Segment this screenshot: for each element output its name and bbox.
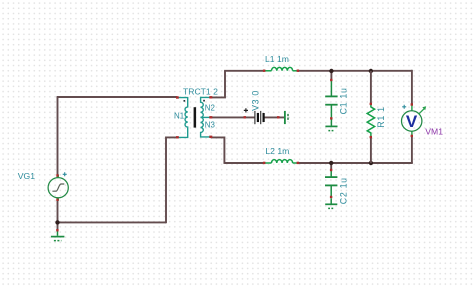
label TRCT1 2: [183, 86, 218, 96]
pin L1 left: [263, 70, 266, 72]
ground G1 below VG1: [51, 232, 65, 241]
inductor L2: [264, 160, 298, 163]
junction VG1-ground node: [55, 220, 59, 224]
pin L1 right: [297, 70, 300, 72]
transformer TRCT1 primary winding N1: [178, 98, 188, 138]
transformer phase dot right: [203, 100, 205, 102]
pin VG1 bottom: [56, 199, 58, 201]
voltage generator VG1: [48, 175, 68, 201]
pin ground G1: [56, 229, 58, 231]
label VM1: [425, 127, 443, 137]
svg-text:V: V: [406, 112, 418, 131]
pin TRCT1 N2 top: [209, 96, 212, 98]
svg-text:R1 1: R1 1: [376, 106, 386, 127]
pin VM1 bottom: [411, 135, 413, 137]
svg-text:N1: N1: [174, 112, 184, 121]
battery V3: [255, 111, 264, 124]
junction node top rail / R1: [369, 69, 373, 73]
wire VM1 bottom pin to bottom rail: [411, 136, 413, 163]
pin R1 bottom: [370, 136, 372, 138]
wire VG1 top to left corner: [57, 97, 59, 178]
wire bottom rail right of L2: [298, 162, 413, 164]
label C1 1u (rotated): [339, 87, 349, 114]
junction node bottom rail / R1: [369, 161, 373, 165]
ground at battery V3 (rotated right): [285, 111, 288, 124]
wire transformer N3 bottom pin to bottom rail: [211, 137, 225, 164]
svg-text:L2 1m: L2 1m: [265, 146, 289, 156]
wire VG1 ground stub: [57, 222, 59, 231]
label winding N2: [205, 104, 215, 113]
svg-text:V3 0: V3 0: [251, 90, 261, 111]
wire right riser to VM1 top pin: [411, 70, 413, 105]
ground below C1: [325, 120, 337, 131]
svg-text:N2: N2: [205, 104, 215, 113]
transformer TRCT1 core: [194, 107, 197, 127]
wire top rail right of L1: [298, 70, 412, 72]
wire VG1 bottom to junction: [57, 198, 59, 223]
pin C1 bottom: [330, 117, 332, 119]
inductor L1: [264, 67, 298, 70]
VM1 plus polarity mark: [402, 105, 406, 109]
VG1 plus polarity mark: [63, 172, 67, 176]
label C2 1u (rotated): [339, 177, 349, 204]
label VG1: [18, 171, 35, 181]
label V3 0 (rotated): [251, 90, 261, 111]
transformer TRCT1 secondary windings N2 N3 with center tap: [201, 97, 211, 136]
wire left riser to transformer N1 bottom: [166, 137, 178, 223]
wire battery V3 to ground: [264, 116, 285, 118]
capacitor C2: [325, 170, 337, 197]
voltmeter VM1: [402, 105, 422, 136]
pin R1 top: [370, 103, 372, 105]
wire C1 junction stub: [330, 71, 332, 80]
svg-text:N3: N3: [205, 121, 216, 130]
pin C2 bottom: [330, 196, 332, 198]
wire transformer N2 top pin to top rail: [211, 71, 225, 98]
label R1 1 (rotated): [376, 106, 386, 127]
svg-text:VG1: VG1: [18, 171, 35, 181]
svg-text:TRCT1 2: TRCT1 2: [183, 86, 218, 96]
ground below C2: [325, 198, 337, 208]
transformer phase dot left: [184, 100, 186, 102]
junction node bottom rail / C2: [329, 161, 333, 165]
pin TRCT1 N1 top: [176, 96, 179, 98]
wire bottom-left horizontal: [58, 221, 167, 223]
junction node top rail / C1: [329, 69, 333, 73]
pin VM1 top: [411, 103, 413, 105]
battery V3 plus polarity mark: [244, 108, 248, 112]
svg-text:C1 1u: C1 1u: [339, 87, 349, 114]
pin VG1 top: [56, 174, 58, 176]
pin L2 right: [297, 162, 300, 164]
wire R1 top lead: [370, 71, 372, 104]
resistor R1: [367, 104, 374, 137]
pin V3 left: [244, 116, 247, 118]
svg-text:C2 1u: C2 1u: [339, 177, 349, 204]
pin C2 top: [330, 169, 332, 171]
capacitor C1: [325, 80, 337, 118]
pin TRCT1 center tap: [209, 116, 212, 118]
wire top-left horizontal to transformer N1 top pin: [57, 96, 178, 98]
pin TRCT1 N1 bottom: [176, 136, 179, 138]
wire R1 bottom lead: [370, 137, 372, 163]
svg-text:VM1: VM1: [425, 127, 443, 137]
VM1 arrow: [419, 106, 427, 114]
wire top rail left of L1: [224, 70, 264, 72]
wire C2 junction stub: [330, 163, 332, 170]
pin TRCT1 N3 bottom: [209, 136, 212, 138]
label L2 1m: [265, 146, 289, 156]
wire center tap to battery V3: [211, 116, 255, 118]
label L1 1m: [265, 54, 289, 64]
pin V3 right / ground pin: [277, 116, 280, 118]
label winding N3: [205, 121, 216, 130]
label winding N1: [174, 112, 184, 121]
pin C1 top: [330, 79, 332, 81]
svg-text:L1 1m: L1 1m: [265, 54, 289, 64]
wire bottom rail left of L2: [224, 162, 264, 164]
pin L2 left: [263, 162, 266, 164]
